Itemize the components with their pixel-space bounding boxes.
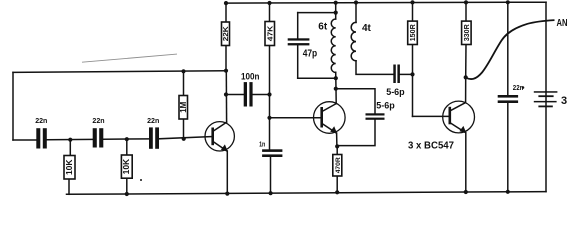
wire Q2 collector vertical [335, 89, 337, 104]
svg-text:22n: 22n [513, 83, 524, 92]
svg-text:10K: 10K [65, 159, 74, 175]
wire 22K bottom to collector node [225, 46, 227, 71]
wire chain segment C [103, 138, 149, 140]
wire 100n right lead [253, 94, 270, 96]
capacitor C1 22n plates [36, 128, 40, 148]
wire 6t coil lower lead [335, 72, 337, 78]
svg-text:1n: 1n [259, 139, 266, 148]
junction dots tank [334, 11, 338, 15]
resistor R3 1M [179, 96, 188, 120]
resistor R7 150R [408, 21, 418, 44]
wire tank bottom [298, 77, 336, 79]
junction dot 5-6p node [410, 72, 414, 76]
wire 470R top stem [336, 146, 338, 154]
capacitor 1n plates [262, 149, 282, 152]
wire 1M top stem [183, 71, 185, 96]
svg-text:3: 3 [561, 95, 567, 107]
svg-text:AN: AN [557, 18, 567, 29]
svg-text:1M: 1M [179, 101, 188, 112]
resistor R5 47K [265, 22, 275, 46]
resistor R1 10K [64, 156, 75, 180]
speck 2 [522, 86, 525, 89]
wire vertical 5-6p bottom [337, 120, 375, 146]
wire Q3 base run [413, 115, 450, 117]
wire 10K R1 bottom stem [68, 179, 70, 194]
wire 22K top stem [225, 3, 227, 22]
wire 1n bottom to rail [270, 157, 272, 193]
wire left vertical feedback [12, 72, 14, 140]
svg-text:470R: 470R [335, 157, 342, 173]
wire chain segment B [47, 138, 93, 140]
wire 22n C4 bottom stem [507, 103, 509, 192]
svg-text:4t: 4t [362, 23, 372, 34]
svg-text:150R: 150R [410, 24, 417, 41]
wire 150R top stem [412, 2, 414, 21]
wire battery inner link [545, 92, 547, 106]
inductor L1 6t coil [331, 19, 335, 72]
capacitor 100n plates [244, 82, 247, 106]
wire 4t coil top stem [355, 3, 357, 23]
wire 10K R2 bottom stem [126, 178, 128, 194]
transistor Q1 [205, 122, 234, 152]
wire battery negative vertical [545, 106, 547, 191]
wire 4t coil lower lead [356, 61, 393, 75]
transistor Q2 [314, 102, 346, 134]
capacitor 47p plates [288, 38, 310, 40]
junction dot Q2 base tee [267, 116, 271, 120]
wire 150R bottom vertical [412, 45, 414, 117]
wire tank top [298, 12, 336, 14]
resistor R4 22K [221, 22, 230, 46]
resistor R2 10K [121, 155, 132, 178]
junction dots chain [68, 138, 72, 142]
svg-text:100n: 100n [241, 72, 260, 82]
capacitor shunt 5-6p plates [366, 113, 385, 115]
stray scan line [82, 54, 177, 62]
capacitor C3 22n plates [149, 127, 153, 148]
wire 47K bottom vertical [269, 46, 271, 150]
wire Q2 base [270, 117, 322, 119]
svg-text:47p: 47p [303, 49, 318, 60]
junction dots feedback wire [181, 69, 185, 73]
wire 10K R2 top stem [126, 139, 128, 155]
wire Q2 emitter vertical [336, 133, 338, 146]
wire tank left below 47p [297, 45, 299, 78]
svg-text:5-6p: 5-6p [376, 100, 395, 110]
wire Q3 collector vertical [465, 77, 467, 102]
svg-text:3 x BC547: 3 x BC547 [408, 140, 454, 152]
wire 1M bottom stem [183, 119, 185, 139]
wire 6t coil top stem [335, 3, 337, 13]
wire Q2 collector to tank bottom [335, 78, 337, 89]
wire Q1 collector vertical [225, 71, 227, 122]
junction dots bottom rail [125, 192, 129, 196]
wire tank left above 47p [297, 13, 299, 39]
wire 6t coil upper lead [335, 13, 337, 19]
svg-text:22n: 22n [147, 116, 159, 125]
wire 100n left lead [226, 94, 244, 96]
resistor R6 470R [333, 155, 342, 177]
wire top supply rail [226, 1, 546, 4]
wire Q1 emitter vertical [226, 151, 228, 194]
wire chain segment A [13, 139, 36, 141]
wire battery positive vertical [545, 2, 547, 91]
wire feedback from Q1 collector to left [13, 71, 226, 73]
svg-text:22n: 22n [92, 116, 104, 125]
wire 47K top stem [269, 3, 271, 22]
wire 330R top stem [465, 2, 467, 21]
wire feedback tap to vertical 5-6p [336, 89, 375, 114]
wire 470R bottom stem [336, 176, 338, 192]
antenna wire curve [466, 20, 555, 79]
capacitor series 5-6p plates [393, 65, 396, 84]
capacitor C9 22n plates [498, 95, 518, 98]
wire 22n C4 top stem [507, 2, 509, 95]
svg-text:10K: 10K [122, 159, 131, 175]
svg-text:6t: 6t [318, 21, 328, 32]
resistor R8 330R [462, 21, 472, 44]
junction dot antenna node [464, 75, 468, 79]
speck 1 [140, 179, 142, 181]
svg-text:22n: 22n [35, 116, 47, 125]
junction dot Q2 emitter node [335, 144, 339, 148]
capacitor C2 22n plates [93, 128, 97, 147]
wire Q3 emitter vertical [465, 133, 467, 192]
svg-text:47K: 47K [265, 25, 274, 41]
junction dots 100n [224, 92, 228, 96]
wire chain segment D to Q1 base [159, 137, 213, 139]
wire 10K R1 top stem [69, 140, 71, 156]
wire series 5-6p right lead [400, 73, 413, 75]
wire bottom ground rail [67, 192, 547, 195]
wire 330R bottom to antenna node [465, 45, 467, 78]
transistor Q3 [443, 101, 475, 133]
inductor L2 4t coil [351, 22, 356, 60]
svg-text:5-6p: 5-6p [386, 87, 405, 97]
battery B1 plates [534, 91, 558, 93]
junction dots top rail [224, 1, 228, 5]
svg-text:22K: 22K [221, 26, 230, 42]
svg-text:330R: 330R [464, 24, 471, 41]
